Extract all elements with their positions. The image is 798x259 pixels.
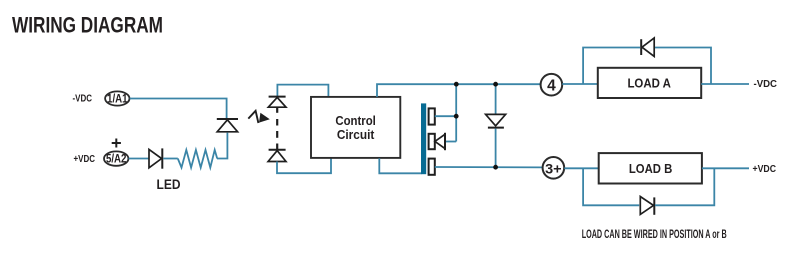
- wire bypass B up leg right: [655, 168, 714, 205]
- diode bypass A (pointing left): [641, 38, 654, 56]
- terminal 3+: [543, 157, 565, 179]
- terminal 4: [541, 74, 563, 96]
- wire LED to resistor: [163, 158, 178, 160]
- svg-text:-VDC: -VDC: [754, 78, 778, 90]
- wire control circuit to MOSFET gate: [379, 158, 421, 173]
- wire 1/A1 to input diode riser: [130, 99, 227, 119]
- light coupling dashed link: [276, 107, 278, 149]
- svg-text:+VDC: +VDC: [753, 163, 777, 175]
- resistor R (zigzag): [178, 150, 217, 168]
- terminal 1/A1: [105, 91, 129, 105]
- wire 5/A2 to LED diode: [129, 158, 149, 160]
- junction drain node: [454, 114, 459, 119]
- svg-text:1/A1: 1/A1: [107, 93, 128, 105]
- junction top rail at TVS: [493, 82, 498, 87]
- wire terminal 4 to LOAD A: [562, 83, 598, 85]
- diode TVS (across output, cathode down): [486, 114, 506, 127]
- op-amp/control block U1 Control Circuit: [311, 97, 400, 158]
- wire TVS bottom lead: [495, 129, 497, 168]
- junction top rail at drain branch: [454, 82, 459, 87]
- diode LED (series diode, pointing right): [149, 148, 162, 168]
- wire bypass A up leg left: [583, 48, 640, 85]
- polarity plus mark: [112, 139, 121, 148]
- svg-text:3+: 3+: [545, 160, 562, 176]
- wire LOAD B to +VDC: [702, 167, 749, 169]
- wire control circuit to top rail: [377, 84, 541, 97]
- opto emitter diode top (cathode bar up): [268, 97, 286, 108]
- body diode of Q1 (pointing left): [435, 133, 445, 150]
- svg-text:LOAD B: LOAD B: [629, 161, 673, 176]
- light arrow into photodetector: [248, 111, 269, 123]
- wire opto detector to control circuit (bottom link): [277, 158, 331, 173]
- svg-text:5/A2: 5/A2: [106, 154, 127, 166]
- diode D-in (input transient diode, cathode up): [217, 119, 238, 132]
- load box LOAD B: [599, 153, 702, 183]
- transistor Q1 drain contact (top): [429, 108, 435, 124]
- wire LOAD A to -VDC: [701, 83, 749, 85]
- svg-text:LOAD CAN BE WIRED IN POSITION: LOAD CAN BE WIRED IN POSITION A or B: [582, 229, 727, 241]
- wire source to bottom rail (to terminal 3+): [435, 166, 543, 168]
- wire opto LED anode link (top): [277, 85, 328, 97]
- terminal 5/A2: [104, 151, 128, 165]
- svg-text:4: 4: [547, 77, 556, 94]
- svg-text:LOAD A: LOAD A: [627, 76, 671, 91]
- wire drain to top rail: [435, 84, 456, 141]
- wire bypass A down leg right: [655, 48, 711, 85]
- transistor Q1 source contact (bottom): [429, 159, 435, 175]
- wire bypass B down leg left: [583, 168, 639, 205]
- svg-text:+VDC: +VDC: [74, 153, 96, 165]
- opto detector diode bottom (cathode bar up): [268, 150, 286, 162]
- wire terminal 3+ to LOAD B: [564, 167, 598, 169]
- svg-text:WIRING DIAGRAM: WIRING DIAGRAM: [12, 13, 163, 38]
- wire TVS top lead: [495, 84, 497, 114]
- transistor Q1 body contact (middle): [429, 134, 435, 149]
- svg-text:Circuit: Circuit: [337, 127, 375, 142]
- svg-text:LED: LED: [157, 176, 181, 192]
- svg-text:-VDC: -VDC: [73, 93, 93, 105]
- load box LOAD A: [598, 68, 701, 98]
- transistor Q1 gate bar: [421, 103, 426, 174]
- wire body diode to drain node: [446, 141, 456, 143]
- junction bottom rail at TVS: [493, 165, 498, 170]
- wire input diode to resistor node: [217, 133, 227, 159]
- diode bypass B (pointing right): [640, 197, 654, 215]
